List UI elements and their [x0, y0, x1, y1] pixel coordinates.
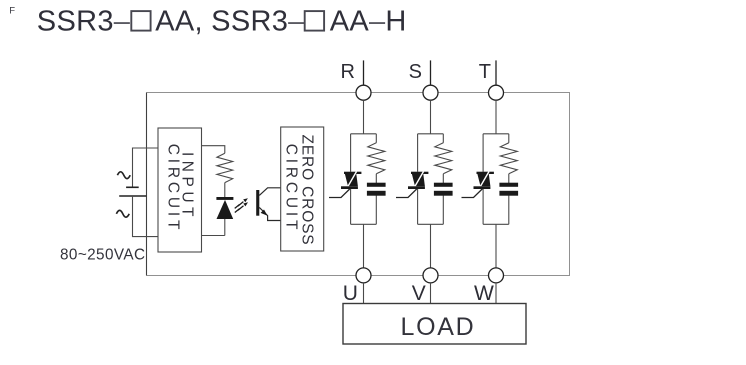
svg-text:U: U	[343, 282, 358, 305]
svg-text:S: S	[409, 61, 422, 83]
svg-text:F: F	[9, 5, 15, 16]
svg-text:W: W	[474, 282, 494, 305]
svg-text:SSR3–: SSR3–	[37, 6, 131, 38]
svg-text:ZERO CROSS: ZERO CROSS	[299, 135, 316, 246]
svg-text:V: V	[412, 282, 426, 305]
svg-text:T: T	[479, 61, 491, 83]
svg-text:AA, SSR3–: AA, SSR3–	[155, 6, 305, 38]
svg-text:AA–H: AA–H	[330, 6, 407, 38]
svg-text:LOAD: LOAD	[401, 313, 476, 341]
svg-text:CIRCUIT: CIRCUIT	[283, 144, 300, 233]
svg-text:80~250VAC: 80~250VAC	[60, 247, 145, 264]
svg-text:CIRCUIT: CIRCUIT	[165, 144, 182, 233]
svg-text:R: R	[341, 61, 355, 83]
